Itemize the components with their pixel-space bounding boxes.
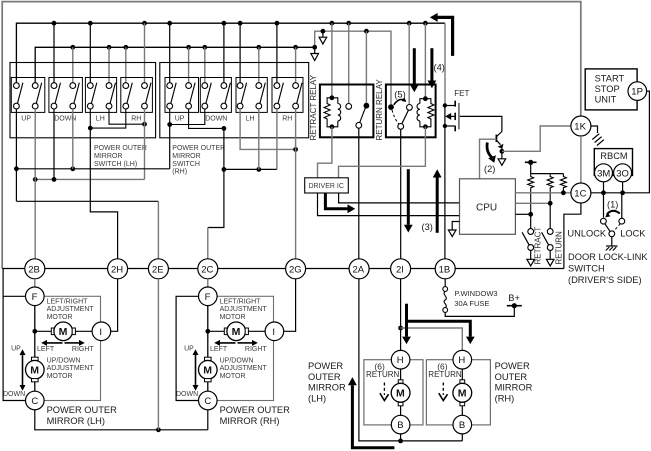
svg-text:UP/DOWN: UP/DOWN [47, 357, 81, 364]
wire LH box: LH-R bottom jog to RH-R column [109, 109, 145, 124]
wire LH.DN-R bottom down to line1 [72, 109, 74, 169]
relay K2 pivot contact [398, 124, 404, 130]
connector B (RH mirror) [453, 415, 472, 434]
svg-text:M: M [59, 326, 68, 338]
B1 drops to switch top contacts [53, 23, 55, 83]
svg-text:B: B [397, 420, 403, 431]
svg-text:H: H [458, 355, 465, 366]
wire RH.RH-L bottom down to line1b end [276, 109, 278, 169]
svg-text:UP: UP [21, 116, 31, 123]
wire line1b (y=169.4) DN-R to LH-R to RH-L riser [224, 168, 277, 170]
wire FET source column down to 1B [444, 126, 446, 259]
off-page triangle below Q2 emitter [498, 159, 506, 166]
wire 1K to 1C [580, 136, 582, 183]
svg-text:RETRACT: RETRACT [534, 227, 543, 265]
wire 2E down to common tie [157, 279, 159, 430]
connector 1K [571, 116, 591, 136]
connector 2B [25, 259, 45, 279]
relay K1 switch: moving contact dot [364, 103, 370, 109]
svg-text:F: F [32, 292, 38, 303]
relay K2 RETURN RELAY box [386, 85, 436, 138]
connector 2I [391, 259, 411, 279]
svg-text:POWER OUTER: POWER OUTER [172, 145, 225, 152]
wire B circles to 2A return line [359, 279, 462, 441]
svg-text:CPU: CPU [476, 203, 497, 214]
connector H (RH mirror) [453, 350, 472, 369]
wire left riser from row line [2, 269, 4, 297]
relay K2 blade dashed (alternate position) [392, 110, 399, 124]
svg-text:DOWN: DOWN [205, 116, 227, 123]
wire F2 down to LR motor row [207, 306, 209, 332]
svg-text:C: C [204, 396, 211, 407]
connector row line [2, 268, 564, 270]
dashed return-flow arrow LH [383, 383, 385, 396]
unit RBCM box [594, 149, 632, 176]
wire line1 (y=168.8) UP-L to DN-R to RH.UP-L riser [16, 168, 169, 170]
svg-text:RH: RH [282, 116, 292, 123]
wire C2 down to common tie [207, 410, 209, 430]
dashed return-flow arrow RH [442, 383, 444, 396]
svg-text:UP/DOWN: UP/DOWN [220, 357, 254, 364]
svg-text:(RH): (RH) [495, 393, 515, 403]
switch box LH (POWER OUTER MIRROR SWITCH (LH)) [10, 63, 156, 138]
wire DRIVER IC out2 to CPU left pin2 [318, 193, 460, 216]
wire RH box: UP-R bottom jog to DN-R column [189, 109, 224, 128]
annotation UP/DOWN arrow (LH) [20, 349, 26, 391]
relay K2 blade solid [402, 110, 409, 124]
switch RETURN (lock position sw) [542, 203, 554, 266]
wire FET gate to Q2 collector [460, 116, 502, 131]
svg-text:OUTER: OUTER [308, 372, 341, 382]
svg-text:M: M [30, 365, 39, 377]
svg-text:LEFT: LEFT [210, 346, 228, 353]
svg-text:MOTOR: MOTOR [220, 314, 246, 321]
svg-text:I: I [99, 327, 102, 338]
wire RH.LH-L bottom jog to 2G column [240, 109, 296, 149]
svg-text:UP: UP [11, 345, 21, 352]
annotation UP/DOWN arrow (RH) [193, 349, 199, 391]
wire Q2 base to CPU top [480, 139, 497, 179]
adjust unit LH box [35, 296, 101, 400]
wire 2B down to F1 [34, 279, 36, 287]
wire line3 (y=201.3) to 2E drop [16, 200, 158, 202]
svg-text:DRIVER IC: DRIVER IC [309, 183, 344, 190]
wire K2 pivot out to 2I [400, 129, 402, 258]
svg-text:F: F [205, 292, 211, 303]
wire CPU right pin2 to return resistor [515, 202, 550, 204]
wire 3O down to lock switch [621, 182, 624, 219]
svg-text:2I: 2I [396, 264, 404, 275]
resistor R1 (to retract sw) [528, 174, 534, 215]
wire y31 dot down to retract moving contact [365, 31, 367, 103]
wire CPU right pin3 to retract resistor [515, 213, 530, 215]
annotation bold return arrow bottom left [348, 377, 394, 448]
unit START STOP UNIT box [585, 69, 637, 110]
motor M3 left/right adjustment (RH) [208, 322, 265, 341]
B1 junction dots [52, 21, 57, 26]
connector 2G [286, 259, 306, 279]
svg-text:UP: UP [184, 345, 194, 352]
wire DRIVER IC out1 to CPU left pin1 [339, 193, 460, 203]
relay K1 switch: fixed contact [346, 104, 352, 110]
svg-text:SWITCH: SWITCH [568, 264, 605, 274]
svg-text:SWITCH (LH): SWITCH (LH) [94, 161, 137, 168]
wire K1 coil out to DRIVER IC in1 [318, 127, 332, 178]
adjust unit RH box [208, 296, 274, 400]
svg-text:I: I [272, 327, 275, 338]
svg-text:DOWN: DOWN [176, 391, 198, 398]
symbol B+ [512, 303, 517, 308]
relay K1 switch pivot contact [356, 122, 362, 128]
svg-text:POWER: POWER [308, 361, 343, 371]
connector 3O [614, 164, 632, 182]
svg-text:POWER OUTER: POWER OUTER [47, 405, 118, 415]
relay K1 coil+resistor parallel [324, 95, 341, 129]
connector F (RH) [199, 287, 218, 306]
svg-text:RIGHT: RIGHT [245, 346, 268, 353]
annotation (6) bold arrows into mirrors [402, 304, 475, 344]
frame wire (ground bus frame: left edge, top edge, drop to 1K) [2, 2, 581, 269]
svg-text:OUTER: OUTER [495, 372, 528, 382]
svg-text:MOTOR: MOTOR [47, 314, 73, 321]
svg-text:M: M [396, 388, 405, 400]
wire LH.RH-R bottom down to line2 [144, 109, 146, 179]
svg-text:POWER: POWER [495, 361, 530, 371]
svg-text:MIRROR: MIRROR [495, 383, 533, 393]
connector 2A [349, 259, 369, 279]
ic U2 CPU box [460, 179, 516, 235]
connector 2C [198, 259, 218, 279]
svg-text:RIGHT: RIGHT [72, 346, 95, 353]
wire tap down and resistor top rail [531, 162, 564, 173]
B2 drops to switch top contacts [72, 47, 74, 83]
annotation LEFT/RIGHT arrows (RH) [214, 340, 258, 346]
annotation LEFT/RIGHT arrows (LH) [41, 340, 85, 346]
svg-text:LOCK: LOCK [620, 228, 646, 238]
relay K1 RETRACT RELAY box [320, 85, 374, 138]
svg-text:B: B [459, 420, 465, 431]
relay K2 coil+resistor parallel [417, 96, 434, 129]
switch pair RH (RH box) [272, 78, 303, 113]
svg-text:(4): (4) [434, 63, 445, 73]
svg-text:3M: 3M [597, 168, 610, 179]
wire LH.UP-L bottom down through line1 to line3 corner [15, 109, 17, 201]
svg-text:2H: 2H [111, 264, 123, 275]
svg-text:LH: LH [246, 116, 255, 123]
svg-text:1P: 1P [631, 87, 643, 98]
switch pair UP (LH box) [11, 78, 45, 113]
svg-text:2A: 2A [353, 264, 365, 275]
svg-text:UNLOCK: UNLOCK [567, 228, 607, 238]
transistor Q1 FET symbol [443, 101, 459, 132]
wire mirror RH outer boundary F to C [176, 296, 199, 400]
svg-text:ADJUSTMENT: ADJUSTMENT [47, 306, 95, 313]
svg-text:UNIT: UNIT [595, 95, 617, 105]
svg-text:LEFT: LEFT [37, 346, 55, 353]
svg-text:MIRROR: MIRROR [308, 383, 346, 393]
wire 1P to right edge down to 1C row [591, 91, 650, 193]
connector 1C [571, 183, 591, 203]
annotation (2) bold curved arrow [487, 143, 492, 158]
svg-text:30A FUSE: 30A FUSE [454, 299, 489, 308]
wire RH.UP-L bottom down to line1 riser [169, 125, 171, 169]
connector I (LH) [92, 322, 111, 341]
svg-text:P.WINDOW3: P.WINDOW3 [454, 289, 497, 298]
connector C (LH) [26, 391, 45, 410]
svg-text:POWER OUTER: POWER OUTER [220, 405, 291, 415]
motor M2 up/down adjustment (LH) [26, 331, 45, 391]
svg-text:2E: 2E [152, 264, 164, 275]
resistor R2 (to return sw) [547, 174, 553, 204]
wire F1 down to LR motor row [34, 306, 36, 332]
B2 junction dots [70, 45, 75, 50]
B1 drops to relay coils / contacts (gray) [331, 23, 333, 98]
svg-text:RH: RH [131, 116, 141, 123]
switch pair DOWN (LH box) [49, 78, 83, 113]
svg-text:1B: 1B [439, 264, 451, 275]
svg-text:(RH): (RH) [172, 169, 187, 176]
svg-text:STOP: STOP [595, 84, 620, 94]
svg-text:M: M [458, 388, 467, 400]
mirror unit box RH (bottom) [426, 360, 490, 425]
annotation (5) arc arrow [394, 99, 406, 104]
svg-text:1C: 1C [574, 189, 586, 200]
svg-text:2B: 2B [28, 264, 40, 275]
motor M6 retract motor RH [453, 369, 472, 415]
svg-text:2C: 2C [201, 264, 213, 275]
connector C (RH) [199, 391, 218, 410]
svg-text:UP: UP [175, 116, 185, 123]
annotation (4) bold arrows into return relay [410, 48, 436, 92]
wire LH box: LH-L bottom jog to RH-L bottom [90, 109, 126, 128]
wire RH box: UP-L bottom jog to DN-L bottom [170, 109, 205, 125]
svg-text:POWER OUTER: POWER OUTER [94, 145, 147, 152]
wire line2 (y=179.4) from RH-R col to UP-R col [35, 178, 144, 180]
svg-text:RBCM: RBCM [600, 151, 627, 161]
wire B1 end down to FET drain [444, 23, 446, 105]
svg-text:RETURN: RETURN [555, 231, 564, 265]
svg-text:ADJUSTMENT: ADJUSTMENT [220, 306, 268, 313]
relay K1 switch blade [360, 108, 366, 123]
bus wire B1 (top bus y=23.2) [16, 23, 445, 83]
svg-text:MOTOR: MOTOR [220, 373, 246, 380]
connector H (LH mirror) [391, 350, 410, 369]
wire mirror LH outer boundary F to C [3, 296, 26, 400]
relay K2 moving contact dot [388, 104, 394, 110]
svg-text:MIRROR: MIRROR [94, 153, 122, 160]
resistor R3 (to 1C line) [560, 174, 566, 193]
wire LH.UP-R bottom down through line2 to 2B [34, 109, 36, 259]
ic U1 DRIVER IC box [305, 178, 349, 193]
wire fuse to B+ [445, 306, 514, 317]
bus wire B2 (second bus y=47.3) [35, 47, 315, 83]
motor M1 left/right adjustment (LH) [35, 322, 92, 341]
svg-text:(3): (3) [422, 222, 433, 232]
svg-text:DOOR LOCK-LINK: DOOR LOCK-LINK [568, 252, 648, 262]
svg-text:(5): (5) [394, 90, 405, 100]
svg-text:M: M [232, 326, 241, 338]
switch pair DOWN (RH box) [200, 78, 231, 113]
off-page triangle below y31 tap [322, 31, 324, 37]
wire RH.RH-R bottom down to 2G [295, 109, 297, 259]
connector F (LH) [26, 287, 45, 306]
fuse P.WINDOW3 30A [443, 287, 448, 313]
annotation bold arrow top right (feed from below to bus) [430, 13, 453, 56]
wire RH.DN-R bottom down through line1b to 2C jog [208, 128, 224, 227]
svg-text:MOTOR: MOTOR [47, 373, 73, 380]
wire Q2 emitter to 1K [502, 126, 571, 151]
svg-text:3O: 3O [616, 168, 629, 179]
svg-text:LH: LH [96, 116, 105, 123]
wire LH.LH-L bottom jog to 2H [90, 128, 117, 259]
svg-text:DOWN: DOWN [3, 391, 25, 398]
connector 2E [148, 259, 168, 279]
annotation (3) bold arrows [404, 169, 442, 233]
svg-text:FET: FET [454, 89, 469, 98]
switch pair RH (LH box) [121, 78, 153, 113]
connector 2H [108, 259, 128, 279]
svg-text:(LH): (LH) [308, 393, 326, 403]
motor M4 up/down adjustment (RH) [199, 331, 218, 391]
svg-text:M: M [203, 365, 212, 377]
svg-text:ADJUSTMENT: ADJUSTMENT [47, 365, 95, 372]
wire C1 down to common tie [35, 410, 208, 430]
node: y31 dot feeding retract relay moving contact [364, 29, 369, 34]
wire 1B to fuse [444, 279, 446, 287]
motor M5 retract motor LH [391, 369, 410, 415]
connector I (RH) [265, 322, 284, 341]
switch door lock-link [601, 211, 625, 237]
node: B2 end junction dot [312, 45, 317, 50]
wire branch to H2 [401, 328, 463, 351]
annotation bold L arrow DRIVER IC to CPU [325, 194, 355, 214]
connector 1B [435, 259, 455, 279]
off-page triangle below B2 end [311, 54, 319, 61]
svg-text:ADJUSTMENT: ADJUSTMENT [220, 365, 268, 372]
node: y31 tap dot [321, 29, 326, 34]
switch pair LH (RH box) [236, 78, 267, 113]
switch box RH (POWER OUTER MIRROR SWITCH (RH)) [160, 63, 309, 138]
svg-text:MIRROR (LH): MIRROR (LH) [47, 416, 105, 426]
connector 1P [628, 82, 647, 101]
svg-text:LEFT/RIGHT: LEFT/RIGHT [220, 298, 262, 305]
wire LH.DN-L bottom down to line2 [53, 109, 55, 179]
svg-text:START: START [595, 74, 625, 84]
connector B (LH mirror) [391, 415, 410, 434]
svg-text:2G: 2G [289, 264, 302, 275]
svg-text:B+: B+ [508, 293, 520, 303]
ground at 1K [591, 126, 604, 146]
svg-text:MIRROR (RH): MIRROR (RH) [220, 416, 280, 426]
svg-text:RETURN RELAY: RETURN RELAY [375, 79, 384, 141]
connector 3M [595, 164, 613, 182]
svg-text:(1): (1) [607, 200, 618, 210]
wire I1 to 2H [111, 279, 118, 332]
wire K2 coil out to DRIVER IC in2 [339, 127, 426, 178]
wire 3M down to lock switch [603, 182, 605, 218]
svg-text:RETURN: RETURN [366, 370, 400, 379]
wire I2 to 2G [284, 279, 296, 332]
svg-text:RETURN: RETURN [428, 370, 462, 379]
wire 2C down to F2 [207, 279, 209, 287]
svg-text:H: H [397, 355, 404, 366]
svg-text:LEFT/RIGHT: LEFT/RIGHT [47, 298, 89, 305]
wire CPU left ground stub with triangle [452, 222, 459, 231]
switch pair UP (RH box) [165, 78, 199, 113]
transistor Q2 (bipolar) [496, 132, 504, 159]
svg-text:SWITCH: SWITCH [172, 161, 200, 168]
mirror unit box LH (bottom) [364, 360, 423, 425]
svg-text:(DRIVER'S SIDE): (DRIVER'S SIDE) [568, 275, 642, 285]
svg-text:MIRROR: MIRROR [172, 153, 200, 160]
wire 2I down to H1 with branch dot [400, 279, 402, 351]
switch pair LH (LH box) [85, 78, 116, 113]
wire 1C bottom to row line [564, 203, 581, 269]
wire RH.LH-R bottom down to line1b [258, 109, 260, 169]
svg-text:RETRACT RELAY: RETRACT RELAY [309, 74, 318, 140]
svg-text:1K: 1K [574, 122, 586, 133]
svg-text:(2): (2) [484, 164, 495, 174]
relay K2 fixed contact [407, 105, 413, 111]
wire K1 switch out to 2A [358, 128, 360, 259]
wire CPU right pin1 to 1C [515, 192, 570, 194]
wire B2 riser to y31 line and taps [315, 31, 391, 106]
svg-text:C: C [31, 396, 38, 407]
ground at lock-link switch [606, 237, 618, 251]
switch RETRACT (lock position sw) [522, 214, 534, 266]
power tap symbol above resistors [525, 161, 537, 163]
